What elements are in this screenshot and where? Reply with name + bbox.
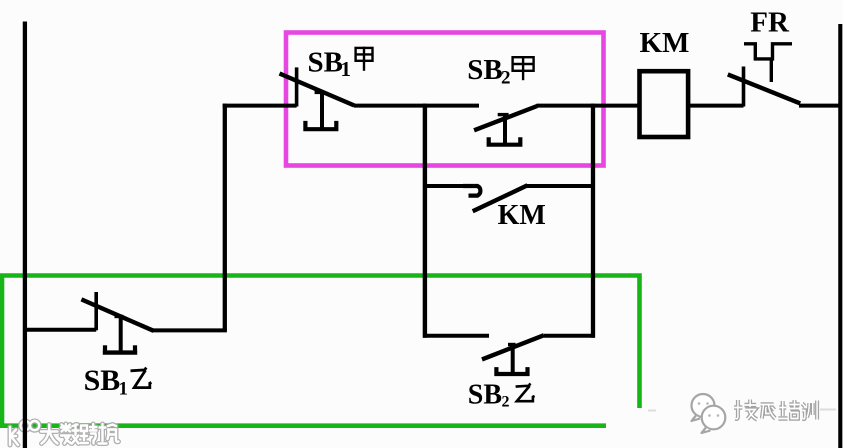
wire: parallel branch right vertical (x=593) (591, 104, 595, 338)
wire: KM self-hold row right (527, 184, 595, 188)
wire: parallel branch left vertical (x=426) (423, 104, 427, 338)
svg-text:KM: KM (640, 27, 690, 59)
svg-text:KM: KM (498, 200, 546, 231)
wire: KM coil to FR (688, 104, 744, 108)
contact KM auxiliary (self-holding NO) (463, 185, 528, 211)
watermark bottom-right wechat logo (692, 394, 726, 433)
label SB2乙 (468, 380, 535, 411)
pushbutton SB2乙 (NO start button, location 乙) (482, 335, 544, 374)
pushbutton SB1乙 (NC stop button, location 乙) (81, 292, 153, 353)
wire: FR to right rail (799, 104, 842, 108)
watermark bottom-left logo+text 大数跨境 (10, 421, 119, 445)
wire: main row left segment (223, 104, 297, 108)
thermal relay FR (NC contact with heater symbol) (728, 44, 800, 107)
left power rail (23, 22, 27, 448)
wire: KM self-hold row left (423, 184, 465, 188)
svg-text:SB: SB (84, 364, 121, 397)
svg-text:2: 2 (502, 394, 510, 411)
contactor coil KM (640, 71, 689, 137)
svg-text:SB: SB (467, 54, 502, 86)
svg-text:SB: SB (308, 46, 343, 78)
pushbutton SB2甲 (NO start button) (474, 106, 537, 145)
wire: SB1乙 row right to node A (153, 328, 227, 332)
svg-text:SB: SB (468, 380, 502, 411)
watermark bottom-right text 技成培训 (734, 400, 817, 420)
label SB1乙 (84, 364, 152, 400)
wire: SB2乙 row right (544, 334, 595, 338)
wire: main row between SB1甲 and SB2甲 (354, 104, 479, 108)
svg-text:FR: FR (750, 6, 790, 38)
label SB1甲 (308, 46, 373, 81)
pushbutton SB1甲 (NC stop button) (280, 67, 355, 129)
wire: SB1乙 row left (from left rail) (23, 328, 96, 332)
right power rail (838, 24, 842, 448)
svg-text:1: 1 (119, 378, 129, 399)
wire: branch vertical at node A (x=225) (223, 104, 227, 331)
watermark faint dashes (648, 410, 836, 411)
svg-text:1: 1 (341, 57, 352, 81)
highlight box pink (甲 location start/stop group) (286, 33, 604, 166)
highlight box green (乙 location group) (0, 276, 640, 428)
wire: main row from SB2甲 to KM coil (537, 104, 640, 108)
label SB2甲 (467, 54, 533, 88)
wire: SB2乙 row left (423, 334, 489, 338)
svg-text:2: 2 (501, 67, 511, 88)
